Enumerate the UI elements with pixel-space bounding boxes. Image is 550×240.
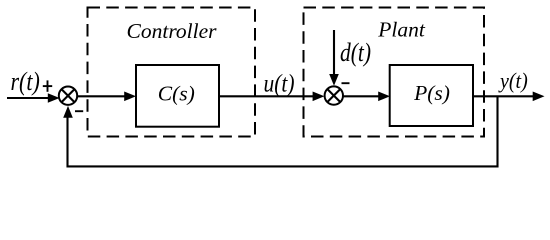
svg-text:Plant: Plant bbox=[377, 17, 426, 41]
svg-text:u(t): u(t) bbox=[264, 70, 295, 98]
svg-text:Controller: Controller bbox=[127, 19, 218, 43]
svg-text:y(t): y(t) bbox=[498, 68, 528, 93]
svg-text:d(t): d(t) bbox=[340, 38, 371, 68]
svg-text:P(s): P(s) bbox=[413, 81, 450, 105]
svg-text:C(s): C(s) bbox=[158, 82, 195, 106]
svg-text:r(t): r(t) bbox=[11, 67, 40, 96]
